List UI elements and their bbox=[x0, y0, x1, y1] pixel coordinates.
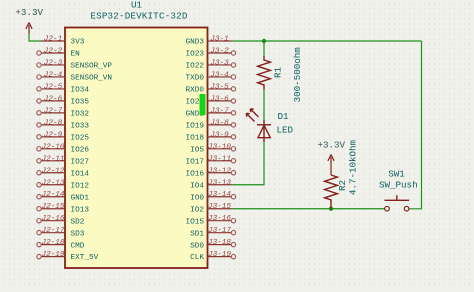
svg-text:D1: D1 bbox=[278, 111, 290, 122]
LED D1 bbox=[246, 109, 271, 142]
svg-text:SD1: SD1 bbox=[190, 230, 204, 238]
svg-text:J2-14: J2-14 bbox=[41, 191, 64, 199]
svg-text:J3-19: J3-19 bbox=[208, 251, 231, 259]
switch SW1 SW_Push bbox=[385, 195, 410, 211]
svg-text:J3-13: J3-13 bbox=[208, 179, 231, 187]
svg-text:IO15: IO15 bbox=[186, 218, 205, 226]
svg-text:4.7-10kOhm: 4.7-10kOhm bbox=[348, 139, 359, 195]
svg-text:J2-15: J2-15 bbox=[41, 203, 64, 211]
pin J3-13 (IO4) right side bbox=[190, 179, 231, 190]
svg-text:IO0: IO0 bbox=[190, 194, 204, 202]
svg-text:LED: LED bbox=[277, 125, 294, 136]
svg-text:R1: R1 bbox=[273, 67, 284, 79]
pin J2-3 (SENSOR_VP) left side bbox=[37, 60, 113, 71]
node junction at R1 branch bbox=[262, 39, 266, 43]
svg-text:J3-12: J3-12 bbox=[208, 167, 231, 175]
svg-text:IO17: IO17 bbox=[186, 158, 205, 166]
svg-text:EXT_5V: EXT_5V bbox=[71, 254, 99, 262]
svg-text:J2-9: J2-9 bbox=[44, 131, 63, 139]
highlight cursor on pins IO21/GND2 bbox=[200, 94, 206, 115]
svg-text:J2-19: J2-19 bbox=[41, 251, 64, 259]
svg-text:SENSOR_VN: SENSOR_VN bbox=[71, 75, 113, 83]
svg-text:IO33: IO33 bbox=[71, 123, 90, 131]
pin J3-5 (RXD0) right side bbox=[186, 83, 236, 94]
svg-text:IO19: IO19 bbox=[186, 123, 205, 131]
resistor R2 bbox=[325, 175, 338, 209]
svg-text:CLK: CLK bbox=[190, 254, 204, 262]
svg-text:J2-10: J2-10 bbox=[41, 143, 64, 151]
svg-text:J3-16: J3-16 bbox=[208, 215, 231, 223]
svg-text:IO14: IO14 bbox=[71, 170, 90, 178]
svg-text:J2-7: J2-7 bbox=[44, 107, 63, 115]
pin J3-2 (IO23) right side bbox=[186, 48, 236, 59]
svg-text:SD2: SD2 bbox=[71, 218, 85, 226]
pin J3-18 (SD0) right side bbox=[190, 239, 236, 250]
svg-text:IO12: IO12 bbox=[71, 182, 90, 190]
pin J3-14 (IO0) right side bbox=[190, 191, 236, 202]
svg-text:IO13: IO13 bbox=[71, 206, 90, 214]
svg-text:IO35: IO35 bbox=[71, 99, 90, 107]
svg-text:J3-14: J3-14 bbox=[208, 191, 231, 199]
svg-text:J2-1: J2-1 bbox=[44, 36, 62, 44]
svg-text:ESP32-DEVKITC-32D: ESP32-DEVKITC-32D bbox=[90, 11, 187, 22]
svg-text:IO32: IO32 bbox=[71, 111, 90, 119]
svg-text:SD3: SD3 bbox=[71, 230, 85, 238]
svg-text:J3-15: J3-15 bbox=[208, 203, 231, 211]
svg-text:J2-12: J2-12 bbox=[41, 167, 64, 175]
svg-text:J2-11: J2-11 bbox=[41, 155, 64, 163]
pin J2-4 (SENSOR_VN) left side bbox=[37, 71, 112, 82]
svg-text:+3.3V: +3.3V bbox=[15, 7, 43, 18]
pin J2-2 (EN) left side bbox=[37, 48, 80, 59]
svg-text:J3-18: J3-18 bbox=[208, 239, 231, 247]
pin J2-18 (CMD) left side bbox=[37, 239, 85, 250]
pin J3-6 (IO21) right side bbox=[186, 95, 236, 106]
pin J3-3 (IO22) right side bbox=[186, 60, 236, 71]
svg-text:J3-2: J3-2 bbox=[210, 48, 229, 56]
pin J3-15 (IO2) right side bbox=[190, 203, 231, 214]
svg-text:J3-4: J3-4 bbox=[210, 71, 229, 79]
pin J3-1 (GND3) right side bbox=[186, 36, 232, 47]
svg-text:J3-17: J3-17 bbox=[208, 227, 231, 235]
wire +3.3V to pin J2-1 bbox=[29, 34, 41, 42]
svg-text:IO26: IO26 bbox=[71, 146, 90, 154]
pin J3-11 (IO17) right side bbox=[186, 155, 236, 166]
svg-text:J3-9: J3-9 bbox=[210, 131, 229, 139]
svg-text:IO5: IO5 bbox=[190, 146, 204, 154]
wire LED to pin J3-13 (IO4) bbox=[232, 142, 265, 185]
resistor R1 bbox=[258, 56, 271, 89]
svg-text:3V3: 3V3 bbox=[71, 39, 85, 47]
svg-text:IO4: IO4 bbox=[190, 182, 204, 190]
pin J2-10 (IO26) left side bbox=[37, 143, 90, 154]
pin J2-13 (IO12) left side bbox=[37, 179, 90, 190]
svg-text:SENSOR_VP: SENSOR_VP bbox=[71, 63, 113, 71]
pin J2-5 (IO34) left side bbox=[37, 83, 90, 94]
svg-text:SD0: SD0 bbox=[190, 242, 204, 250]
pin J3-19 (CLK) right side bbox=[190, 251, 236, 262]
power symbol +3.3V (top left) bbox=[15, 7, 43, 34]
svg-text:J2-16: J2-16 bbox=[41, 215, 64, 223]
svg-text:IO16: IO16 bbox=[186, 170, 205, 178]
pin J2-19 (EXT_5V) left side bbox=[37, 251, 99, 262]
pin J2-17 (SD3) left side bbox=[37, 227, 85, 238]
svg-text:IO27: IO27 bbox=[71, 158, 90, 166]
pin J3-16 (IO15) right side bbox=[186, 215, 236, 226]
op-amp U1 body (ESP32-DEVKITC-32D symbol outline) bbox=[65, 28, 208, 269]
svg-text:+3.3V: +3.3V bbox=[318, 140, 346, 151]
pin J3-9 (IO18) right side bbox=[186, 131, 236, 142]
svg-text:J3-3: J3-3 bbox=[210, 60, 229, 68]
svg-text:300-500ohm: 300-500ohm bbox=[292, 47, 303, 103]
svg-text:J2-8: J2-8 bbox=[44, 119, 63, 127]
svg-text:SW_Push: SW_Push bbox=[379, 180, 418, 191]
pin J3-12 (IO16) right side bbox=[186, 167, 236, 178]
svg-text:J2-3: J2-3 bbox=[44, 60, 63, 68]
pin J2-16 (SD2) left side bbox=[37, 215, 85, 226]
pin J3-7 (GND2) right side bbox=[186, 107, 236, 118]
svg-text:IO23: IO23 bbox=[186, 51, 205, 59]
svg-text:J2-17: J2-17 bbox=[41, 227, 64, 235]
svg-text:J3-7: J3-7 bbox=[210, 107, 229, 115]
svg-text:GND1: GND1 bbox=[71, 194, 90, 202]
svg-text:SW1: SW1 bbox=[388, 169, 405, 180]
pin J2-15 (IO13) left side bbox=[37, 203, 90, 214]
pin J2-7 (IO32) left side bbox=[37, 107, 90, 118]
node junction at R2 branch bbox=[329, 207, 333, 211]
svg-text:J2-2: J2-2 bbox=[44, 48, 63, 56]
svg-text:IO25: IO25 bbox=[71, 134, 90, 142]
pin J2-1 (3V3) left side bbox=[41, 36, 85, 47]
wire pin J3-15 (IO2) to switch SW1 bbox=[232, 208, 385, 210]
pin J2-9 (IO25) left side bbox=[37, 131, 90, 142]
pin J2-6 (IO35) left side bbox=[37, 95, 90, 106]
svg-text:RXD0: RXD0 bbox=[186, 87, 205, 95]
svg-text:IO22: IO22 bbox=[186, 63, 205, 71]
pin J3-10 (IO5) right side bbox=[190, 143, 236, 154]
pin J3-8 (IO19) right side bbox=[186, 119, 236, 130]
svg-text:EN: EN bbox=[71, 51, 80, 59]
pin J2-11 (IO27) left side bbox=[37, 155, 90, 166]
svg-text:IO2: IO2 bbox=[190, 206, 204, 214]
svg-text:IO18: IO18 bbox=[186, 134, 205, 142]
svg-text:CMD: CMD bbox=[71, 242, 85, 250]
svg-text:J2-4: J2-4 bbox=[44, 71, 63, 79]
svg-text:J2-18: J2-18 bbox=[41, 239, 64, 247]
svg-text:J3-6: J3-6 bbox=[210, 95, 229, 103]
svg-text:U1: U1 bbox=[131, 0, 143, 11]
svg-text:J3-11: J3-11 bbox=[208, 155, 231, 163]
wire right vertical down to switch bbox=[409, 41, 422, 209]
pin J3-17 (SD1) right side bbox=[190, 227, 236, 238]
pin J2-14 (GND1) left side bbox=[37, 191, 90, 202]
pin J2-8 (IO33) left side bbox=[37, 119, 90, 130]
svg-text:IO34: IO34 bbox=[71, 87, 90, 95]
power symbol +3.3V (at R2) bbox=[318, 140, 346, 176]
pin J2-12 (IO14) left side bbox=[37, 167, 90, 178]
svg-text:J3-5: J3-5 bbox=[210, 83, 229, 91]
wire junction down to R1 bbox=[263, 41, 265, 56]
wire R1 to LED bbox=[263, 89, 265, 120]
svg-text:J3-8: J3-8 bbox=[210, 119, 229, 127]
svg-text:J2-5: J2-5 bbox=[44, 83, 63, 91]
svg-text:J3-10: J3-10 bbox=[208, 143, 231, 151]
svg-text:J3-1: J3-1 bbox=[210, 36, 228, 44]
svg-text:J2-13: J2-13 bbox=[41, 179, 64, 187]
svg-text:GND3: GND3 bbox=[186, 39, 205, 47]
svg-text:TXD0: TXD0 bbox=[186, 75, 205, 83]
svg-text:J2-6: J2-6 bbox=[44, 95, 63, 103]
svg-text:R2: R2 bbox=[337, 180, 348, 191]
wire GND3 (J3-1) to top-right corner bbox=[232, 40, 422, 42]
pin J3-4 (TXD0) right side bbox=[186, 71, 236, 82]
